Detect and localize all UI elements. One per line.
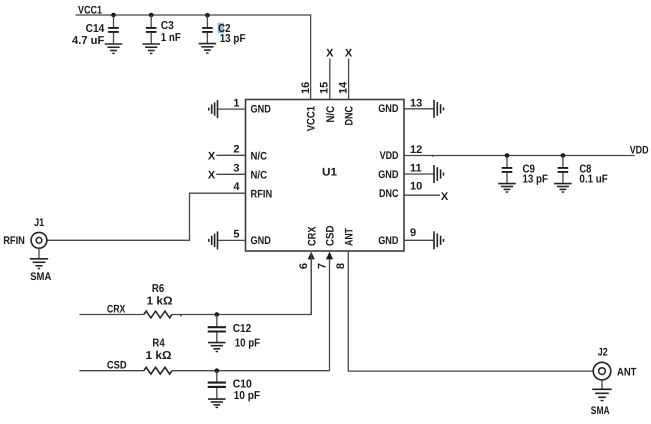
node junction C3 [149, 13, 154, 18]
svg-text:9: 9 [410, 227, 416, 239]
node junction C9 [505, 153, 510, 158]
svg-text:R6: R6 [152, 283, 164, 295]
resistor R4 [144, 337, 172, 374]
svg-text:VDD: VDD [380, 150, 399, 162]
connector J2 [591, 347, 637, 418]
svg-text:U1: U1 [322, 166, 337, 178]
ground pin 13 [434, 100, 444, 118]
svg-text:15: 15 [319, 82, 331, 94]
node junction C10 [215, 368, 220, 373]
pin 5 GND [218, 229, 271, 248]
wire CSD input [79, 370, 143, 372]
svg-text:CSD: CSD [325, 225, 337, 246]
svg-text:10 pF: 10 pF [235, 337, 260, 349]
svg-text:10: 10 [410, 180, 422, 192]
svg-text:13 pF: 13 pF [523, 173, 548, 185]
pin 10 DNC [379, 180, 449, 203]
ground C9 [498, 184, 516, 192]
svg-text:14: 14 [338, 81, 350, 94]
ground pin 5 [209, 231, 218, 249]
wire R6 to pin 6 [172, 253, 311, 315]
pin 16 VCC1 [300, 82, 318, 132]
svg-text:GND: GND [378, 235, 398, 247]
ground pin 1 [209, 100, 218, 118]
node junction C2 [205, 13, 210, 18]
pin 1 GND [218, 97, 271, 115]
ground J1 [30, 248, 48, 268]
ground C14 [105, 44, 123, 53]
svg-text:CSD: CSD [107, 360, 127, 372]
capacitor C9 [502, 156, 548, 186]
ground C10 [208, 399, 226, 407]
svg-text:VDD: VDD [630, 144, 649, 156]
capacitor C3 [146, 15, 181, 44]
svg-text:R4: R4 [152, 337, 165, 349]
svg-text:C14: C14 [86, 23, 105, 35]
svg-text:6: 6 [298, 263, 310, 269]
svg-text:C3: C3 [161, 20, 174, 32]
svg-text:GND: GND [378, 169, 398, 181]
svg-text:10 pF: 10 pF [234, 390, 261, 402]
svg-text:J1: J1 [34, 217, 44, 229]
svg-text:ANT: ANT [344, 228, 356, 246]
capacitor C10 [208, 371, 260, 402]
svg-text:4: 4 [233, 181, 240, 193]
op-amp U1 IC body [246, 100, 405, 252]
svg-text:13 pF: 13 pF [220, 33, 246, 45]
capacitor C8 [558, 156, 608, 186]
pin 11 GND [378, 162, 434, 181]
svg-text:1 kΩ: 1 kΩ [147, 295, 173, 307]
svg-text:RFIN: RFIN [251, 189, 273, 201]
svg-text:X: X [441, 191, 449, 203]
pin 12 VDD [380, 144, 635, 162]
svg-text:SMA: SMA [30, 271, 51, 283]
svg-text:ANT: ANT [617, 366, 637, 378]
pin 7 CSD [316, 225, 336, 370]
svg-text:X: X [326, 48, 334, 60]
svg-text:1 kΩ: 1 kΩ [146, 350, 172, 362]
svg-text:3: 3 [233, 162, 239, 174]
svg-text:1 nF: 1 nF [161, 32, 181, 44]
svg-text:5: 5 [233, 229, 239, 241]
connector J1 [3, 217, 51, 283]
pin 6 CRX [298, 226, 318, 315]
wire R4 to pin 7 [172, 370, 330, 372]
pin 8 ANT [335, 228, 593, 371]
pin 4 RFIN [47, 181, 272, 241]
pin 13 GND [378, 98, 434, 116]
ground C12 [208, 343, 226, 352]
svg-text:N/C: N/C [325, 106, 337, 123]
svg-text:7: 7 [316, 263, 328, 269]
svg-text:GND: GND [251, 235, 271, 247]
svg-text:CRX: CRX [306, 226, 318, 246]
svg-text:DNC: DNC [379, 188, 399, 200]
ground C3 [142, 44, 160, 53]
svg-text:N/C: N/C [251, 150, 268, 162]
ground C2 [199, 44, 217, 53]
svg-text:X: X [208, 170, 216, 182]
svg-text:VCC1: VCC1 [306, 106, 318, 131]
node junction C12 [215, 312, 220, 317]
node junction C14 [111, 13, 116, 18]
ground pin 11 [434, 165, 444, 183]
svg-text:16: 16 [300, 82, 312, 94]
svg-text:C12: C12 [233, 323, 252, 335]
node junction C8 [561, 153, 566, 158]
svg-text:RFIN: RFIN [3, 235, 25, 247]
svg-text:1: 1 [233, 97, 239, 109]
wire CRX input [79, 314, 143, 316]
svg-text:J2: J2 [598, 347, 608, 359]
svg-text:N/C: N/C [251, 169, 268, 181]
capacitor C12 [208, 315, 260, 350]
pin 2 N/C [208, 144, 267, 163]
pin 3 N/C [208, 162, 267, 181]
capacitor C2 (highlighted ref) [202, 15, 245, 45]
ground J2 [592, 380, 612, 401]
resistor R6 [144, 283, 173, 318]
svg-text:2: 2 [233, 144, 239, 156]
svg-text:C10: C10 [233, 378, 252, 390]
svg-text:11: 11 [410, 162, 422, 174]
svg-text:X: X [345, 48, 353, 60]
svg-text:DNC: DNC [344, 106, 356, 126]
svg-text:X: X [208, 151, 216, 163]
ground C8 [554, 184, 572, 192]
svg-text:GND: GND [251, 103, 271, 115]
ground pin 9 [434, 231, 444, 249]
svg-text:SMA: SMA [591, 405, 610, 417]
capacitor C14 [72, 15, 119, 47]
svg-text:0.1 uF: 0.1 uF [579, 173, 607, 185]
svg-text:GND: GND [378, 103, 398, 115]
svg-text:8: 8 [335, 263, 347, 269]
svg-text:CRX: CRX [107, 304, 126, 316]
pin 15 N/C [319, 48, 337, 123]
pin 9 GND [378, 227, 434, 247]
svg-text:4.7 uF: 4.7 uF [72, 35, 104, 47]
svg-text:13: 13 [410, 98, 422, 110]
svg-text:12: 12 [410, 144, 422, 156]
wire VCC1 rail to pin 16 [76, 15, 311, 100]
pin 14 DNC [338, 48, 356, 126]
